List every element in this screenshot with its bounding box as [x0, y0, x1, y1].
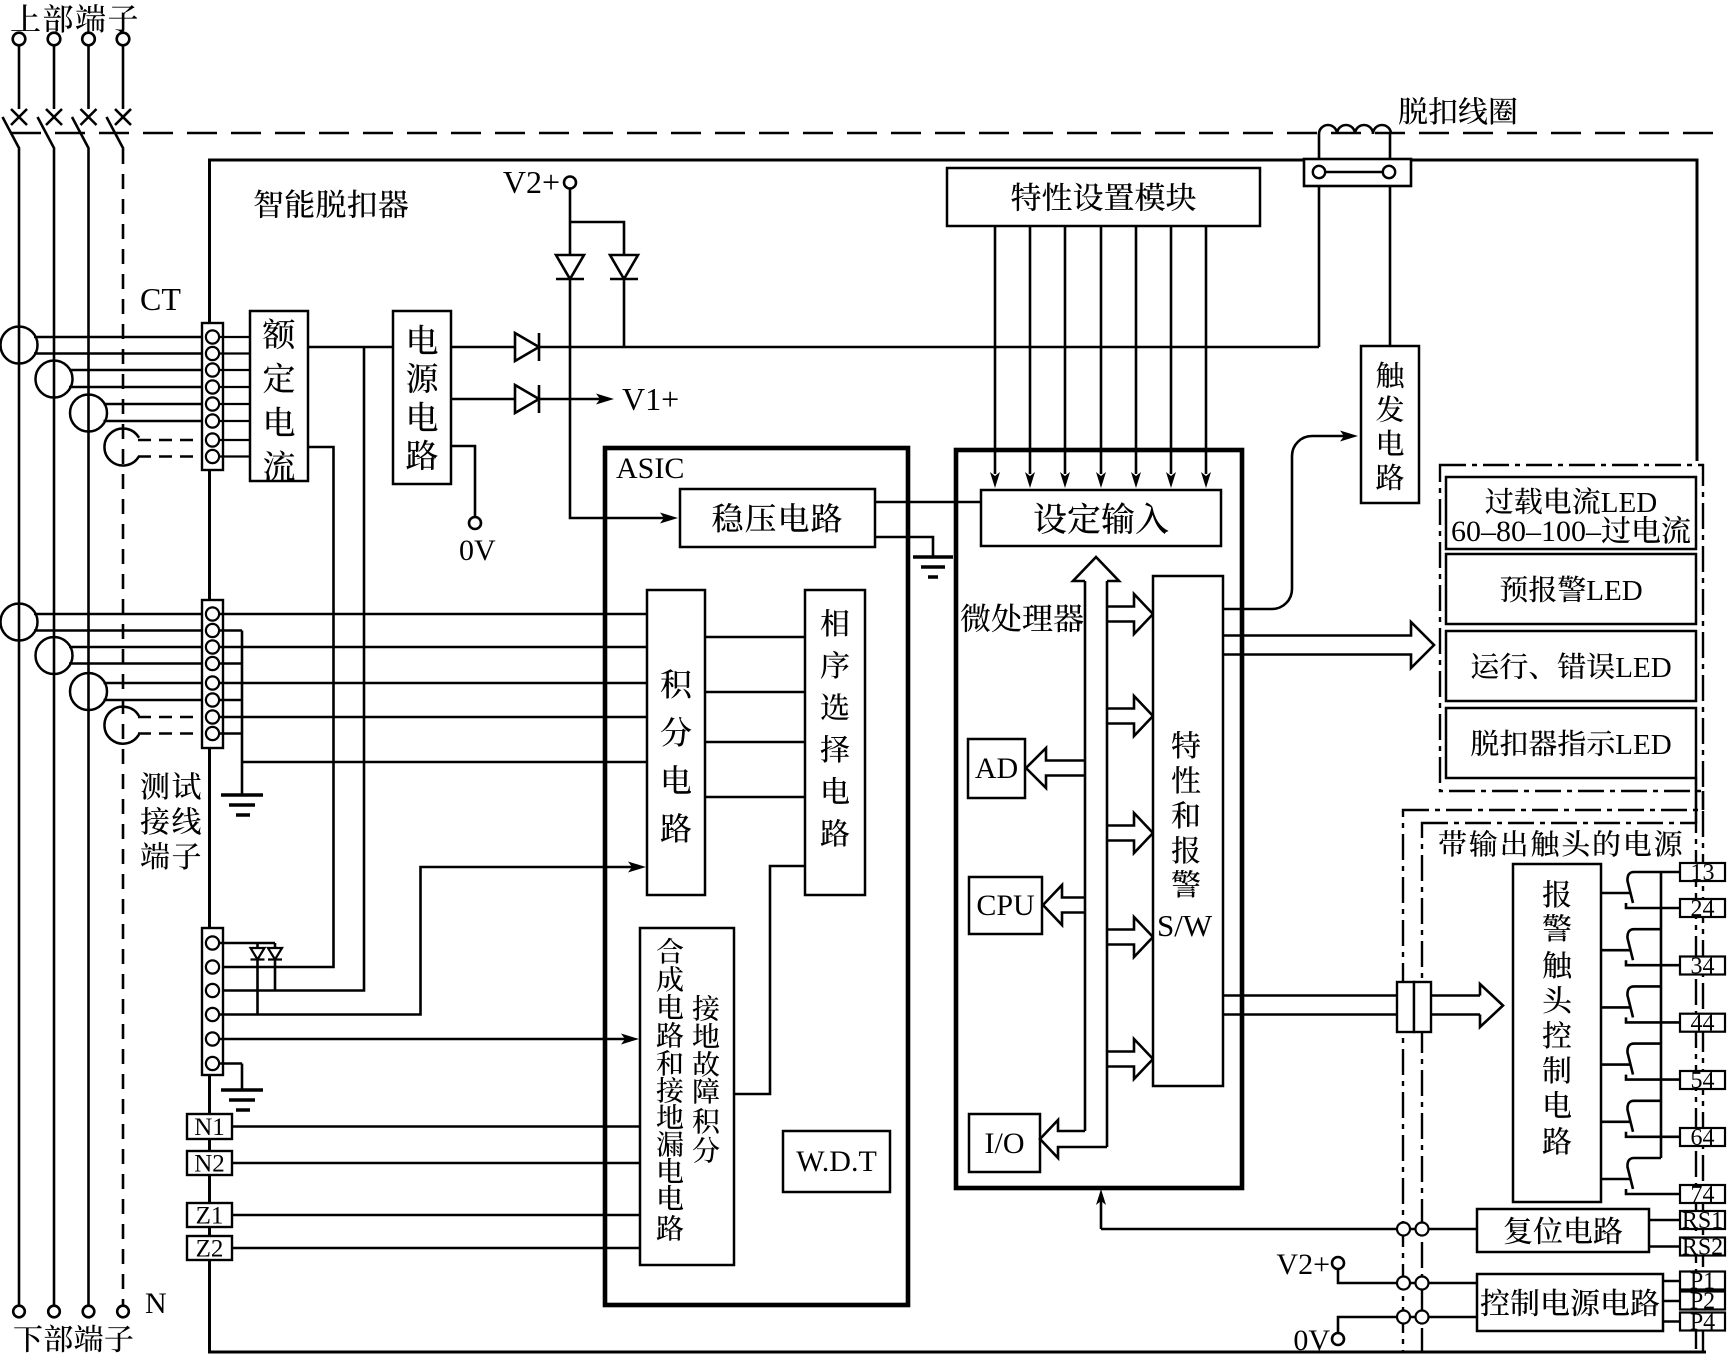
block: I/O — [969, 1114, 1040, 1172]
TB2 terminal circle 8 — [206, 727, 219, 740]
TB1 terminal circle 4 — [206, 380, 219, 393]
label: 74 — [1691, 1182, 1715, 1208]
wire: power-circuit output upper — [451, 346, 515, 349]
TB2 terminal circle 1 — [206, 607, 219, 620]
block: 报警触头控制电路 (alarm contact control) — [1513, 864, 1601, 1202]
current transformer CT5 (circle) — [1, 604, 38, 641]
wire: reset to RS1 — [1649, 1219, 1680, 1222]
label: 智能脱扣器 — [254, 189, 408, 218]
wire: setting line x1065 — [1060, 226, 1070, 488]
wire: power-circuit output lower — [451, 398, 515, 401]
terminal Z2 (box) — [187, 1236, 232, 1260]
lower terminal circle 2 — [48, 1306, 60, 1318]
wire: setting line x1206 — [1201, 226, 1211, 488]
wire: D6 to c3 line — [274, 960, 277, 991]
svg-text:I/O: I/O — [985, 1127, 1025, 1160]
label: 测试接线端子 — [141, 772, 201, 870]
lower terminal circle 4 — [117, 1306, 129, 1318]
current transformer CT7 (circle) — [70, 673, 107, 710]
label: 积分电路 — [661, 669, 692, 842]
block: microprocessor (thick box) — [956, 450, 1242, 1188]
svg-text:RS1: RS1 — [1682, 1208, 1723, 1234]
open arrow to I/O — [1040, 1120, 1107, 1158]
terminal 44 (box) — [1680, 1014, 1725, 1032]
wire: integrator to phase-select y742 — [705, 741, 805, 744]
label: 64 — [1691, 1125, 1715, 1151]
terminal 24 (box) — [1680, 899, 1725, 917]
relay contact K4 — [1601, 1044, 1680, 1080]
breaker cross mark phase 3 — [81, 109, 97, 125]
label: P1 — [1690, 1269, 1715, 1295]
label: 报警触头控制电路 — [1543, 880, 1572, 1155]
wire: TB1 to rated-current block — [219, 336, 250, 338]
label: 运行、错误LED — [1471, 652, 1671, 684]
label: N1 — [194, 1114, 225, 1141]
breaker cross mark phase 4 — [115, 109, 131, 125]
block: AD — [968, 739, 1025, 798]
wire: phase-select to ground-fault integrator — [734, 866, 805, 1094]
CT5 secondary wires — [34, 614, 206, 631]
label: 预报警LED — [1501, 575, 1643, 607]
diode D5 (small, down) — [251, 948, 265, 960]
TB1 terminal circle 6 — [206, 414, 219, 427]
wire: TB1 to rated-current block — [219, 455, 250, 457]
upper terminal circle phase 4 — [117, 33, 130, 109]
panel: inner (dash-dot) — [1422, 823, 1696, 1352]
block: 设定输入 (setting input) — [981, 490, 1221, 546]
trip coil inductor 脱扣线圈 — [1319, 125, 1391, 166]
wire: N1 to synth block — [232, 1125, 640, 1128]
terminal P2 (box) — [1680, 1292, 1725, 1310]
label: 44 — [1691, 1011, 1715, 1037]
terminal RS2 (box) — [1680, 1238, 1725, 1256]
wire: microprocessor to reset — [1096, 1189, 1477, 1229]
TB3 terminal circle 6 — [206, 1057, 219, 1070]
wire: setting line x995 — [990, 226, 1000, 488]
wire: ctrl-power to P4 — [1663, 1320, 1680, 1323]
wire: S/W to trigger circuit (curved) — [1223, 431, 1358, 610]
wire: TB3-c4 to integrator arrow — [219, 862, 646, 1015]
CT2 secondary wires — [69, 370, 206, 387]
wire: D1 to regulator input — [570, 279, 678, 524]
current transformer CT3 (circle) — [70, 395, 107, 432]
label: 触发电路 — [1376, 361, 1404, 490]
label: Z1 — [196, 1203, 224, 1230]
wire: TB2-c5 to integrator — [219, 682, 647, 685]
main enclosure box (intelligent trip unit) — [210, 160, 1707, 1352]
wire: setting line x1136 — [1131, 226, 1141, 488]
label: 设定输入 — [1034, 502, 1168, 534]
open arrow: head to alarm control — [1431, 984, 1503, 1027]
diode D1 (down) — [556, 255, 584, 279]
relay contact K2 — [1601, 929, 1680, 965]
TB1 terminal circle 3 — [206, 363, 219, 376]
dashed boundary line (breaker frame) — [11, 132, 1716, 134]
neutral conductor N (dashed vertical wire) — [122, 149, 125, 1306]
svg-text:P4: P4 — [1690, 1310, 1715, 1336]
diode D3 (right) — [515, 333, 539, 361]
terminal 54 (box) — [1680, 1071, 1725, 1089]
wire: common to integrator (y762) — [242, 761, 647, 764]
wire: rated-current to power-circuit (y347) — [308, 346, 393, 349]
CT8 secondary wires (dashed) — [138, 717, 206, 734]
junction circles on 0V wire — [1397, 1311, 1429, 1324]
terminal N1 (box) — [187, 1114, 232, 1139]
svg-text:LED: LED — [1586, 575, 1642, 607]
phase conductor 2 (vertical wire) — [53, 149, 56, 1306]
terminal strip TB3 (test terminals) — [202, 928, 223, 1075]
open arrow to CPU — [1043, 885, 1085, 925]
ground symbol GND3 — [221, 1090, 263, 1110]
svg-text:S/W: S/W — [1157, 908, 1213, 943]
wire: y347 junction down to test strip c3 — [219, 347, 364, 991]
label: 13 — [1691, 860, 1715, 886]
TB3 terminal circle 4 — [206, 1008, 219, 1021]
CT7 secondary wires — [104, 683, 207, 700]
current transformer CT2 (circle) — [36, 361, 73, 398]
label: 电源电路 — [406, 325, 437, 470]
wire: rated-current lower output to test strip c2 — [219, 447, 334, 967]
open arrow to S/W y833 — [1107, 813, 1153, 853]
label: V1+ — [622, 381, 679, 417]
label: 微处理器 — [961, 604, 1083, 633]
open arrow to S/W y614 — [1107, 594, 1153, 634]
svg-text:34: 34 — [1691, 954, 1715, 980]
label: S/W — [1157, 908, 1213, 943]
block: 过载电流LED — [1446, 477, 1696, 549]
open arrow to S/W y1059 — [1107, 1039, 1153, 1079]
panel: 带输出触头的电源 outer (dash-dot) — [1403, 810, 1703, 1352]
svg-text:LED: LED — [1601, 487, 1657, 519]
wire: setting line x1101 — [1096, 226, 1106, 488]
svg-text:0V: 0V — [459, 534, 496, 567]
svg-text:AD: AD — [975, 752, 1018, 785]
terminal RS1 (box) — [1680, 1211, 1725, 1229]
block: 触发电路 (trigger circuit) — [1361, 346, 1419, 503]
wire: TB3-c1 header — [219, 943, 275, 948]
label: 60-80-100-过电流 — [1451, 515, 1690, 548]
switch blade phase 4 — [107, 117, 124, 149]
trip coil contact box — [1304, 159, 1411, 186]
wire: reset to RS2 — [1649, 1245, 1680, 1248]
block: 特性设置模块 (characteristic setting module) — [947, 168, 1260, 226]
label: 额定电流 — [263, 318, 294, 481]
node 0V bottom (circle) — [1332, 1333, 1344, 1345]
svg-text:N: N — [145, 1287, 167, 1320]
panel: LED indicators (dash-dot box) — [1440, 465, 1703, 791]
current transformer CT8 (arc, neutral) — [104, 707, 139, 744]
breaker cross mark phase 2 — [46, 109, 62, 125]
diode D4 (right) — [515, 385, 539, 413]
wire: TB1 to rated-current block — [219, 369, 250, 371]
wire: bus segments right — [1696, 778, 1703, 823]
label: 脱扣器指示LED — [1471, 729, 1671, 761]
lower terminal circle 1 — [13, 1306, 25, 1318]
open arrow to AD — [1026, 748, 1085, 788]
ground symbol GND4 — [913, 557, 953, 577]
open arrow to S/W y716 — [1107, 696, 1153, 736]
upper terminal circle phase 2 — [48, 33, 61, 109]
diode D2 (down) — [610, 255, 638, 279]
wire: regulator to setting-input — [875, 501, 981, 504]
node V2+ (circle) — [564, 177, 576, 189]
wire: D2 down to y347 line — [623, 279, 626, 347]
label: 带输出触头的电源 — [1439, 830, 1682, 857]
label: upper terminals 上部端子 — [11, 4, 137, 33]
label: 24 — [1691, 896, 1715, 922]
label: N — [145, 1287, 167, 1320]
svg-text:Z2: Z2 — [196, 1236, 224, 1263]
TB3 terminal circle 3 — [206, 984, 219, 997]
wire: TB3-c6 to ground — [219, 1064, 242, 1091]
node 0V (circle) — [469, 517, 481, 529]
wire: to V1+ with arrow — [539, 394, 614, 405]
wire: integrator to phase-select y692 — [705, 691, 805, 694]
terminal P1 (box) — [1680, 1272, 1725, 1290]
block: 运行、错误LED — [1446, 631, 1696, 701]
svg-text:CT: CT — [140, 281, 181, 317]
relay contact K3 — [1601, 986, 1680, 1022]
breaker cross mark phase 1 — [11, 109, 27, 125]
svg-text:N1: N1 — [194, 1114, 225, 1141]
block: 复位电路 (reset circuit) — [1477, 1209, 1649, 1252]
label: 过载电流LED — [1486, 487, 1658, 519]
wire: Z2 to synth block — [232, 1247, 640, 1250]
wire: TB2-c7 to integrator — [219, 716, 647, 719]
terminal strip TB1 (CT group 1) — [202, 323, 223, 470]
svg-text:ASIC: ASIC — [616, 452, 684, 485]
label: V2+ top — [503, 164, 560, 200]
block: 控制电源电路 (control power circuit) — [1477, 1274, 1663, 1331]
wire: power-circuit to 0V node — [451, 446, 475, 517]
label: 34 — [1691, 954, 1715, 980]
TB1 terminal circle 2 — [206, 347, 219, 360]
block: 额定电流 (rated current) — [250, 311, 308, 481]
wire: TB1 to rated-current block — [219, 352, 250, 354]
TB2 terminal circle 5 — [206, 676, 219, 689]
diode D6 (small, down) — [268, 948, 282, 960]
label: 相序选择电路 — [821, 609, 850, 847]
wire: V2+ branch to D2 — [570, 222, 624, 255]
svg-text:W.D.T: W.D.T — [796, 1145, 877, 1178]
terminal N2 (box) — [187, 1151, 232, 1175]
upper terminal circle phase 1 — [13, 33, 26, 109]
wire: diode D3 to trip coil — [539, 178, 1319, 347]
CT1 secondary wires — [34, 337, 206, 354]
label: CPU — [976, 889, 1035, 922]
svg-text:13: 13 — [1691, 860, 1715, 886]
phase conductor 1 (vertical wire) — [18, 149, 21, 1306]
terminal strip TB2 (CT group 2) — [202, 600, 223, 748]
svg-text:RS2: RS2 — [1682, 1235, 1723, 1261]
label: 复位电路 — [1505, 1217, 1623, 1245]
current transformer CT4 (arc, neutral) — [104, 429, 139, 466]
junction circles on reset wire — [1397, 1223, 1429, 1236]
relay contact K6 — [1601, 1158, 1680, 1194]
terminal P4 (box) — [1680, 1313, 1725, 1331]
terminal 64 (box) — [1680, 1128, 1725, 1146]
label: 合成电路和接地漏电电路 — [657, 938, 684, 1241]
label: RS1 — [1682, 1208, 1723, 1234]
label: Z2 — [196, 1236, 224, 1263]
TB1 terminal circle 1 — [206, 330, 219, 343]
block: 积分电路 (integrator) — [647, 590, 705, 895]
svg-text:44: 44 — [1691, 1011, 1715, 1037]
label: I/O — [985, 1127, 1025, 1160]
block: 预报警LED — [1446, 554, 1696, 624]
wire: integrator to phase-select y637 — [705, 636, 805, 639]
contact bus vertical — [1660, 872, 1663, 1158]
wire: TB1 to rated-current block — [219, 403, 250, 405]
wire: TB2-c3 to integrator — [219, 646, 647, 649]
current transformer CT1 (circle) — [1, 327, 38, 364]
wire: integrator to phase-select y797 — [705, 796, 805, 799]
wire: D5 to c4 line — [256, 960, 259, 1015]
wire: 0V to ctrl-power — [1338, 1317, 1477, 1333]
svg-text:V2+: V2+ — [1276, 1248, 1330, 1281]
svg-text:V1+: V1+ — [622, 381, 679, 417]
relay contact K1 — [1601, 872, 1680, 908]
label: P4 — [1690, 1310, 1715, 1336]
phase conductor 3 (vertical wire) — [87, 149, 90, 1306]
label: W.D.T — [796, 1145, 877, 1178]
terminal 34 (box) — [1680, 957, 1725, 975]
CT6 secondary wires — [69, 647, 206, 664]
wire: TB1 to rated-current block — [219, 439, 250, 441]
svg-text:64: 64 — [1691, 1125, 1715, 1151]
block: ASIC (thick box) — [605, 448, 908, 1305]
label: 控制电源电路 — [1481, 1289, 1659, 1317]
wire: TB2 even terminals common — [219, 631, 242, 796]
terminal 74 (box) — [1680, 1185, 1725, 1203]
label: 接地故障积分 — [693, 995, 720, 1163]
wire: TB3-c5 to synth arrow — [219, 1034, 639, 1045]
label: CT — [140, 281, 181, 317]
TB3 terminal circle 5 — [206, 1032, 219, 1045]
TB1 terminal circle 5 — [206, 397, 219, 410]
wire: regulator lower to ground — [875, 537, 933, 556]
wire: TB2-c1 to integrator — [219, 613, 647, 616]
TB2 terminal circle 2 — [206, 624, 219, 637]
block: 相序选择电路 (phase sequence select) — [805, 590, 865, 895]
current transformer CT6 (circle) — [36, 637, 73, 674]
lower terminal circle 3 — [83, 1306, 95, 1318]
svg-text:N2: N2 — [194, 1151, 225, 1178]
wire: N2 to synth block — [232, 1162, 640, 1165]
label: P2 — [1690, 1289, 1715, 1315]
label: 特性和报警 — [1172, 731, 1201, 898]
label: 0V left — [459, 534, 496, 567]
label: 稳压电路 — [712, 503, 841, 533]
open arrow: S/W to run/error LED — [1223, 622, 1434, 668]
block: 脱扣器指示LED — [1446, 708, 1696, 778]
switch blade phase 2 — [38, 117, 55, 149]
label: AD — [975, 752, 1018, 785]
block: 稳压电路 (regulator) — [680, 489, 875, 547]
wire: coil right to trigger — [1389, 178, 1392, 346]
label: V2+ bottom — [1276, 1248, 1330, 1281]
svg-text:24: 24 — [1691, 896, 1715, 922]
label: ASIC — [616, 452, 684, 485]
wire: ctrl-power to P1 — [1663, 1280, 1680, 1283]
TB1 terminal circle 7 — [206, 433, 219, 446]
svg-text:54: 54 — [1691, 1068, 1715, 1094]
CT4 secondary wires (dashed) — [138, 440, 206, 457]
label: 特性设置模块 — [1011, 182, 1195, 211]
open arrow: S/W to alarm control (body) — [1223, 996, 1397, 1015]
svg-text:0V: 0V — [1293, 1324, 1330, 1355]
block: 特性和报警 S/W — [1153, 576, 1223, 1086]
ground symbol GND2 — [221, 795, 263, 815]
TB2 terminal circle 3 — [206, 640, 219, 653]
junction circles on V2+ wire — [1397, 1277, 1429, 1290]
wire: setting line x1171 — [1166, 226, 1176, 488]
TB1 terminal circle 8 — [206, 450, 219, 463]
bus arrow: microprocessor internal (up) — [1073, 557, 1119, 1147]
TB2 terminal circle 6 — [206, 693, 219, 706]
open arrow to S/W y937 — [1107, 917, 1153, 957]
TB3 terminal circle 2 — [206, 960, 219, 973]
label: 54 — [1691, 1068, 1715, 1094]
coupling block on arrow — [1397, 982, 1431, 1032]
svg-text:LED: LED — [1615, 729, 1671, 761]
wire: setting line x1030 — [1025, 226, 1035, 488]
block: W.D.T — [783, 1131, 890, 1192]
CT3 secondary wires — [104, 404, 207, 421]
label: lower terminals 下部端子 — [14, 1325, 133, 1353]
wire: V2+ to ctrl-power — [1338, 1269, 1477, 1283]
relay contact K5 — [1601, 1101, 1680, 1137]
TB3 terminal circle 1 — [206, 936, 219, 949]
TB2 terminal circle 7 — [206, 710, 219, 723]
wire: V2+ vertical — [569, 189, 572, 256]
wire: TB1 to rated-current block — [219, 420, 250, 422]
node V2+ bottom (circle) — [1332, 1257, 1344, 1269]
wire: TB1 to rated-current block — [219, 386, 250, 388]
svg-text:LED: LED — [1615, 652, 1671, 684]
label: 0V bottom — [1293, 1324, 1330, 1355]
wire: ctrl-power to P2 — [1663, 1300, 1680, 1303]
label: 脱扣线圈 — [1399, 97, 1517, 125]
wire: Z1 to synth block — [232, 1214, 640, 1217]
svg-text:V2+: V2+ — [503, 164, 560, 200]
svg-text:74: 74 — [1691, 1182, 1715, 1208]
block: 合成电路和接地漏电电路 (synthesis & earth leakage) — [640, 928, 734, 1265]
terminal 13 (box) — [1680, 863, 1725, 881]
svg-text:CPU: CPU — [976, 889, 1035, 922]
upper terminal circle phase 3 — [82, 33, 95, 109]
TB2 terminal circle 4 — [206, 657, 219, 670]
trip coil contact circles — [1313, 166, 1395, 178]
label: N2 — [194, 1151, 225, 1178]
block: CPU — [969, 877, 1042, 934]
svg-text:60–80–100–: 60–80–100– — [1451, 515, 1602, 548]
switch blade phase 3 — [72, 117, 89, 149]
label: RS2 — [1682, 1235, 1723, 1261]
block: 电源电路 (power supply circuit) — [393, 311, 451, 484]
switch blade phase 1 — [3, 117, 20, 149]
terminal Z1 (box) — [187, 1203, 232, 1227]
svg-text:Z1: Z1 — [196, 1203, 224, 1230]
